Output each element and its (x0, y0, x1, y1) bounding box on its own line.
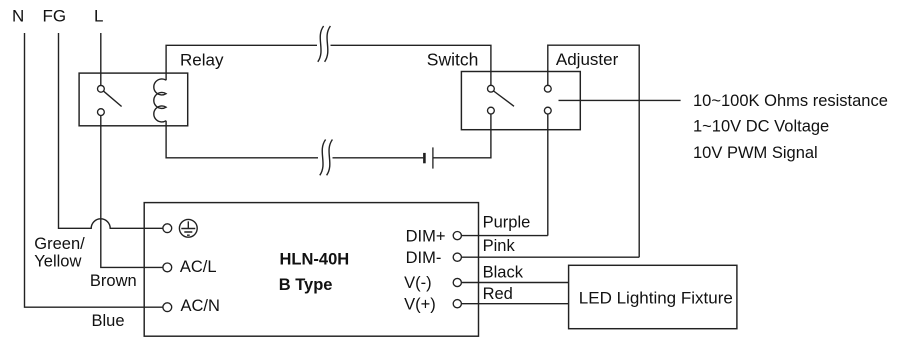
wire loop bottom edge left part (166, 121, 318, 158)
svg-text:1~10V DC Voltage: 1~10V DC Voltage (693, 118, 829, 136)
switch box (461, 72, 580, 130)
svg-text:Relay: Relay (180, 51, 224, 70)
svg-text:Yellow: Yellow (34, 253, 81, 271)
wire loop bottom from break to battery (333, 157, 424, 159)
terminal V- circle (453, 278, 461, 286)
LED lighting fixture box (569, 265, 737, 328)
svg-text:AC/N: AC/N (181, 297, 220, 315)
wire L below relay contact to AC/L (101, 116, 163, 268)
terminal DIM- circle (453, 253, 461, 261)
svg-text:Brown: Brown (90, 272, 137, 290)
svg-text:FG: FG (43, 7, 67, 26)
adjuster box top edge (548, 45, 639, 257)
svg-text:Switch: Switch (427, 50, 479, 70)
svg-text:L: L (94, 7, 103, 26)
relay contact blade (104, 91, 122, 106)
relay contact circle bottom (98, 109, 105, 116)
break symbol top (318, 26, 331, 62)
battery negative bar (423, 153, 426, 163)
power supply box U1 (144, 203, 478, 337)
svg-text:10~100K Ohms resistance: 10~100K Ohms resistance (693, 92, 888, 110)
relay contact box (79, 73, 188, 126)
svg-text:Adjuster: Adjuster (556, 50, 619, 69)
wire loop top edge left part (166, 45, 317, 80)
adjuster wire to DIM+ (547, 114, 549, 236)
terminal DIM+ circle (453, 232, 461, 240)
svg-text:N: N (12, 7, 24, 26)
svg-text:DIM-: DIM- (406, 249, 442, 267)
svg-text:Purple: Purple (483, 214, 531, 232)
svg-text:Blue: Blue (92, 312, 125, 330)
adjuster contact top (544, 85, 551, 92)
wire L (brown) vertical into relay contact (100, 33, 102, 85)
svg-text:Green/: Green/ (34, 235, 85, 253)
switch blade (494, 91, 514, 106)
wire black V- (461, 282, 568, 284)
switch contact top-left (488, 85, 495, 92)
svg-text:Red: Red (483, 285, 513, 303)
wire pink DIM- (461, 256, 639, 258)
relay coil (154, 79, 166, 122)
svg-text:V(+): V(+) (404, 296, 436, 314)
adjuster contact bottom (544, 107, 551, 114)
svg-text:HLN-40H: HLN-40H (280, 250, 350, 268)
battery positive bar (432, 147, 434, 168)
wire FG (green/yellow) vertical, hop over L, to ground terminal (59, 33, 163, 228)
wire red V+ (461, 303, 568, 305)
terminal FG circle (163, 224, 172, 233)
protective earth symbol (179, 219, 197, 237)
svg-text:LED Lighting Fixture: LED Lighting Fixture (579, 289, 733, 308)
switch contact bottom-left (488, 107, 495, 114)
wire loop bottom from battery to switch (433, 114, 491, 158)
break symbol bottom (320, 140, 333, 176)
svg-text:V(-): V(-) (404, 274, 432, 292)
svg-text:DIM+: DIM+ (406, 228, 446, 246)
relay contact circle top (98, 85, 105, 92)
terminal AC/L circle (163, 263, 172, 272)
terminal V+ circle (453, 300, 461, 308)
svg-text:B Type: B Type (279, 276, 333, 294)
terminal AC/N circle (163, 303, 172, 312)
svg-text:Pink: Pink (483, 237, 516, 255)
wire N (blue) vertical and to AC/N (25, 33, 163, 307)
wire loop top edge right part (331, 45, 491, 85)
svg-text:Black: Black (483, 263, 524, 281)
pointer line to notes (559, 99, 681, 101)
svg-text:10V PWM Signal: 10V PWM Signal (693, 144, 818, 162)
wire purple DIM+ (461, 235, 547, 237)
svg-text:AC/L: AC/L (180, 258, 217, 276)
